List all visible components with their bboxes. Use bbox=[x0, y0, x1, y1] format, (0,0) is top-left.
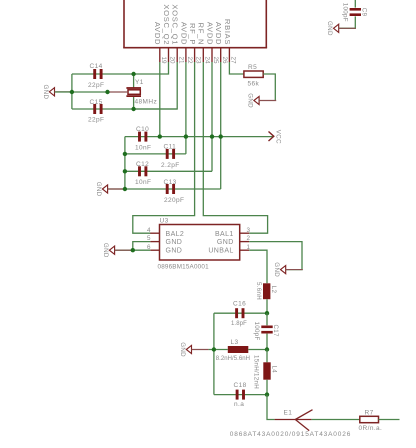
wire GND row to L3 bbox=[209, 349, 228, 351]
svg-text:C13: C13 bbox=[164, 179, 177, 186]
svg-text:26: 26 bbox=[221, 56, 228, 64]
U3 pin 5 stub GND bbox=[150, 241, 159, 243]
wire AVDD rail to VCC bbox=[125, 136, 274, 138]
wire antenna to R7 bbox=[311, 419, 359, 421]
svg-text:GND: GND bbox=[217, 239, 234, 246]
junction AVDD rail pin26 bbox=[219, 134, 223, 138]
svg-text:0868AT43A0020/0915AT43A0026: 0868AT43A0020/0915AT43A0026 bbox=[230, 431, 351, 438]
junction GND bus at crystal GND row bbox=[70, 90, 74, 94]
svg-text:10nF: 10nF bbox=[135, 145, 151, 152]
wire pin19 AVDD down to AVDD rail bbox=[159, 62, 161, 137]
U3 pin 4 stub BAL2 bbox=[150, 232, 159, 234]
pin 24 stub (RF_N) bbox=[202, 48, 204, 62]
pin 27 stub (RBIAS) bbox=[228, 48, 230, 62]
svg-text:19: 19 bbox=[160, 56, 167, 64]
junction crystal case GND bbox=[105, 90, 109, 94]
supply symbol VCC bbox=[269, 130, 282, 144]
wire U3 pin5 to pin6 GND bbox=[133, 242, 151, 251]
svg-text:R5: R5 bbox=[248, 64, 257, 71]
wire pin22 AVDD down to AVDD rail and C11 bbox=[185, 62, 187, 154]
U3 pin 3 stub BAL1 bbox=[240, 232, 250, 234]
svg-text:E1: E1 bbox=[284, 409, 293, 416]
svg-text:25: 25 bbox=[212, 56, 219, 64]
pin 23 stub (RF_P) bbox=[194, 48, 196, 62]
svg-text:2.2pF: 2.2pF bbox=[161, 162, 180, 169]
wire C11 row bbox=[125, 153, 186, 155]
wire R5 right to GND elbow bbox=[263, 74, 275, 101]
svg-text:C9: C9 bbox=[360, 8, 367, 17]
svg-text:8.2nH/5.6nH: 8.2nH/5.6nH bbox=[216, 356, 250, 362]
wire C16 left down to GND row and C18 bbox=[213, 313, 215, 394]
inductor L4 bbox=[253, 350, 278, 390]
svg-text:23: 23 bbox=[195, 56, 202, 64]
wire crystal case to GND row bbox=[55, 91, 108, 93]
svg-text:C15: C15 bbox=[90, 99, 103, 106]
wire GND bus C14/C15 left vertical bbox=[71, 74, 73, 109]
capacitor C15 bbox=[88, 99, 104, 124]
svg-text:C10: C10 bbox=[136, 126, 149, 133]
ground symbol at matching network bbox=[179, 342, 209, 357]
svg-text:5.6nH: 5.6nH bbox=[255, 282, 262, 300]
ground symbol left of crystal caps bbox=[42, 85, 72, 100]
svg-text:XOSC_Q1: XOSC_Q1 bbox=[171, 4, 180, 45]
svg-text:27: 27 bbox=[230, 56, 237, 64]
svg-text:C16: C16 bbox=[233, 301, 246, 308]
svg-text:21: 21 bbox=[177, 56, 184, 64]
svg-text:L2: L2 bbox=[270, 286, 277, 294]
svg-text:56k: 56k bbox=[248, 81, 260, 88]
svg-text:15nH/12nH: 15nH/12nH bbox=[253, 355, 260, 389]
pin 25 stub (AVDD) bbox=[211, 48, 213, 62]
junction AVDD rail pin22 bbox=[184, 134, 188, 138]
wire L2 bottom to C16/C17 junction bbox=[266, 299, 268, 313]
svg-text:BAL1: BAL1 bbox=[215, 231, 234, 238]
wire L3 right to junction bbox=[248, 349, 267, 351]
resistor R5 bbox=[244, 64, 263, 88]
svg-text:1.8pF: 1.8pF bbox=[231, 321, 247, 327]
wire pin27 RBIAS right to R5 bbox=[229, 62, 244, 74]
inductor L2 bbox=[255, 282, 277, 300]
wire C9 down to GND elbow bbox=[339, 16, 355, 28]
svg-text:AVDD: AVDD bbox=[179, 22, 188, 45]
junction AVDD rail pin25 bbox=[210, 134, 214, 138]
pin 22 stub (AVDD) bbox=[185, 48, 187, 62]
wire C16 row bbox=[214, 312, 267, 314]
junction crystal top / pin20 bbox=[131, 72, 135, 76]
svg-text:C17: C17 bbox=[272, 325, 279, 338]
svg-text:BAL2: BAL2 bbox=[166, 231, 185, 238]
ground symbol at U3 right bbox=[273, 262, 303, 277]
capacitor C9 (100pF, top right) bbox=[342, 3, 368, 22]
svg-text:C11: C11 bbox=[164, 144, 177, 151]
wire pin20 XOSC_Q2 down and left to crystal top bbox=[134, 62, 169, 74]
capacitor C10 bbox=[135, 126, 151, 152]
ground symbol at C9 bbox=[326, 21, 356, 36]
wire pin24 RF_N down, right, down to U3 BAL1 bbox=[203, 62, 267, 233]
svg-text:220pF: 220pF bbox=[164, 197, 184, 204]
svg-text:AVDD: AVDD bbox=[205, 22, 214, 45]
svg-text:VCC: VCC bbox=[275, 130, 282, 144]
wire pin23 RF_P down, left, down to U3 BAL2 bbox=[133, 62, 195, 233]
capacitor C14 bbox=[88, 63, 104, 89]
svg-text:22pF: 22pF bbox=[88, 82, 104, 89]
capacitor C11 bbox=[161, 144, 180, 170]
svg-text:GND: GND bbox=[166, 239, 183, 246]
U3 pin 1 stub UNBAL bbox=[240, 249, 250, 251]
wire L4 bottom to C18 row bbox=[266, 380, 268, 395]
svg-text:24: 24 bbox=[203, 56, 210, 64]
wire U3 pin6 to ground bbox=[115, 249, 151, 251]
svg-text:L3: L3 bbox=[231, 339, 239, 346]
antenna E1 bbox=[230, 409, 351, 438]
wire into C9 from top edge bbox=[354, 0, 356, 8]
ground symbol at C13 row bbox=[95, 182, 125, 197]
svg-text:Y1: Y1 bbox=[135, 79, 144, 86]
wire C13 row bbox=[107, 188, 220, 190]
svg-text:U3: U3 bbox=[160, 218, 169, 225]
junction C17/L3/L4 bbox=[265, 347, 269, 351]
capacitor C17 bbox=[253, 313, 279, 349]
wire U3 pin2 right to GND elbow bbox=[249, 242, 302, 270]
wire down to antenna row bbox=[267, 395, 275, 420]
svg-text:C12: C12 bbox=[136, 161, 149, 168]
capacitor C18 bbox=[234, 382, 247, 408]
wire C14 row bbox=[72, 73, 134, 75]
svg-text:100pF: 100pF bbox=[253, 322, 260, 341]
U3 pin 6 stub GND bbox=[150, 249, 159, 251]
junction C18/L4/antenna bbox=[265, 392, 269, 396]
svg-text:RF_P: RF_P bbox=[188, 23, 197, 45]
svg-text:RF_N: RF_N bbox=[197, 23, 206, 46]
wire U3 pin1 UNBAL to L2 bbox=[249, 250, 267, 283]
junction crystal bottom / pin21 bbox=[131, 107, 135, 111]
svg-text:0896BM15A0001: 0896BM15A0001 bbox=[158, 264, 210, 271]
wire R7 right end bbox=[379, 419, 400, 421]
wire C18 row bbox=[214, 394, 267, 396]
junction U3 pin6 GND bbox=[131, 248, 135, 252]
junction GND bus C13 row bbox=[123, 187, 127, 191]
svg-text:UNBAL: UNBAL bbox=[208, 248, 233, 255]
wire C15 row bbox=[72, 108, 177, 110]
wire pin21 XOSC_Q1 down and left to crystal bottom bbox=[134, 62, 178, 109]
resistor R7 bbox=[359, 409, 383, 432]
svg-text:GND: GND bbox=[166, 248, 183, 255]
svg-text:10nF: 10nF bbox=[135, 179, 151, 186]
svg-text:AVDD: AVDD bbox=[214, 22, 223, 45]
svg-text:RBIAS: RBIAS bbox=[223, 19, 232, 45]
svg-text:100pF: 100pF bbox=[342, 3, 349, 22]
junction GND row / C16-C18 riser bbox=[212, 347, 216, 351]
junction AVDD rail pin19 bbox=[158, 134, 162, 138]
svg-text:C18: C18 bbox=[234, 382, 247, 389]
capacitor C12 bbox=[135, 161, 151, 186]
svg-text:0R/n.a.: 0R/n.a. bbox=[359, 425, 383, 432]
junction GND bus C11 row bbox=[123, 152, 127, 156]
balun U3 bbox=[158, 218, 240, 271]
ground symbol at R5 bbox=[247, 93, 277, 108]
svg-text:L4: L4 bbox=[270, 366, 277, 374]
capacitor C16 bbox=[231, 301, 247, 328]
svg-text:48MHz: 48MHz bbox=[135, 99, 158, 106]
svg-text:C14: C14 bbox=[90, 63, 103, 70]
svg-text:4: 4 bbox=[147, 227, 151, 234]
inductor L3 bbox=[216, 339, 250, 362]
crystal Y1 48MHz bbox=[108, 74, 158, 109]
svg-text:22: 22 bbox=[186, 56, 193, 64]
pin 26 stub (AVDD) bbox=[220, 48, 222, 62]
svg-text:AVDD: AVDD bbox=[153, 22, 162, 45]
pin 19 stub (AVDD) bbox=[159, 48, 161, 62]
U3 pin 2 stub GND bbox=[240, 241, 250, 243]
pin 21 stub (XOSC_Q1) bbox=[176, 48, 178, 62]
wire C12 row bbox=[125, 170, 212, 172]
svg-text:3: 3 bbox=[247, 227, 251, 234]
wire pin25 AVDD down to AVDD rail and C12 bbox=[211, 62, 213, 171]
svg-text:n.a: n.a bbox=[234, 401, 244, 408]
junction GND bus C12 row bbox=[123, 169, 127, 173]
ground symbol at U3 left bbox=[102, 243, 132, 258]
pin 20 stub (XOSC_Q2) bbox=[168, 48, 170, 62]
capacitor C13 bbox=[164, 179, 185, 204]
wire GND bus (C10-C13 left vertical) bbox=[124, 137, 126, 189]
svg-text:XOSC_Q2: XOSC_Q2 bbox=[162, 4, 171, 45]
svg-text:20: 20 bbox=[169, 56, 176, 64]
svg-text:R7: R7 bbox=[365, 409, 374, 416]
wire pin26 AVDD down to AVDD rail and C13 bbox=[220, 62, 222, 189]
IC U2 transceiver (top, cropped by image edge) bbox=[123, 0, 267, 48]
junction L2/C16/C17 bbox=[265, 311, 269, 315]
svg-text:22pF: 22pF bbox=[88, 117, 104, 124]
